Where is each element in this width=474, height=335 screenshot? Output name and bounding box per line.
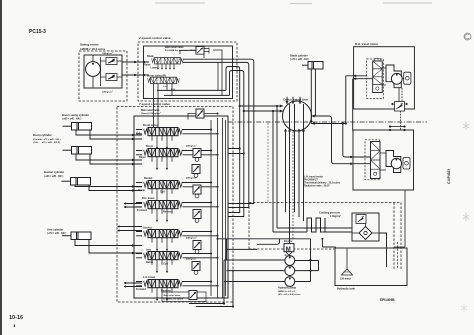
swivel west drop lines bbox=[273, 106, 277, 232]
LH brake valve spool stack bbox=[371, 142, 381, 179]
center main relief valve bbox=[189, 291, 197, 300]
spool service ports and work lines bbox=[152, 238, 172, 250]
swivel pass-through verticals bbox=[286, 104, 304, 244]
swivel right out upper to LH motor bbox=[312, 116, 354, 164]
fold mark bottom right bbox=[461, 304, 467, 312]
svg-text:(4.5 + 4.5 + 4.4) cc/rev: (4.5 + 4.5 + 4.4) cc/rev bbox=[278, 293, 301, 296]
spool boom swing L bbox=[144, 128, 183, 136]
swivel top stubs bbox=[287, 97, 300, 104]
LH motor drain bbox=[394, 190, 405, 247]
svg-text:SBR0.9 + 0.9 + 6: SBR0.9 + 0.9 + 6 bbox=[278, 291, 296, 293]
LH motor entry stubs bbox=[353, 157, 371, 164]
center swivel joint circle bbox=[283, 101, 312, 131]
svg-text:Boom: Boom bbox=[146, 145, 154, 148]
svg-text:Main relief valve: Main relief valve bbox=[141, 109, 160, 112]
internal rails bbox=[211, 118, 226, 298]
pump suction lines right bbox=[295, 261, 319, 282]
boom swing spool down ports into 7-spool valve bbox=[154, 84, 173, 128]
copyright mark bbox=[464, 33, 471, 40]
junction dots swing wires bbox=[134, 61, 136, 63]
wire swing motor to 2-speed valve A bbox=[122, 61, 149, 63]
port relief valve bbox=[192, 165, 200, 174]
RH to LH dashed link bbox=[400, 111, 402, 130]
svg-text:Forward: Forward bbox=[137, 209, 147, 212]
center main relief label box bbox=[162, 292, 206, 302]
svg-text:(Travel) 210 kg/cm²: (Travel) 210 kg/cm² bbox=[141, 112, 161, 115]
LH motor circle bbox=[391, 158, 401, 168]
svg-text:Boom swing: Boom swing bbox=[143, 124, 158, 127]
swivel axis dash-dot line bbox=[228, 121, 427, 123]
svg-text:2-speed control valve: 2-speed control valve bbox=[139, 36, 171, 40]
engine coupling bbox=[286, 252, 292, 255]
svg-text:Dump: Dump bbox=[146, 261, 154, 264]
svg-text:1.0kg/cm²: 1.0kg/cm² bbox=[330, 214, 341, 218]
swing relief valve lower bbox=[106, 74, 117, 81]
svg-text:240kg/cm²: 240kg/cm² bbox=[186, 176, 197, 179]
main relief valve PV-20MA bbox=[196, 47, 209, 55]
check valve box bbox=[352, 213, 379, 241]
svg-text:Lower: Lower bbox=[151, 67, 158, 70]
left pin wires bucket bbox=[128, 187, 142, 191]
spool boom swing L ports and work lines bbox=[152, 136, 172, 148]
junction dots 2-speed bbox=[239, 105, 241, 107]
pump delivery lines left bbox=[224, 260, 285, 282]
RH brake valve spool stack bbox=[373, 59, 383, 93]
boom swing cylinder bbox=[63, 123, 92, 131]
return jog line bbox=[257, 239, 280, 245]
engine box bbox=[284, 244, 294, 252]
7-spool solid body bbox=[134, 116, 228, 298]
2-speed dashed enclosure bbox=[138, 42, 237, 101]
travel spool left stubs bbox=[118, 204, 143, 287]
boom swing R spool bbox=[148, 77, 180, 83]
left pin wires boom swing bbox=[128, 135, 142, 139]
RH brake valve dashed box bbox=[367, 59, 384, 99]
svg-text:Bucket: Bucket bbox=[144, 177, 153, 180]
svg-text:⍸: ⍸ bbox=[13, 322, 16, 327]
svg-text:Curl: Curl bbox=[163, 262, 168, 265]
page left border bbox=[0, 0, 2, 335]
RH parking brake bbox=[404, 72, 411, 84]
svg-text:Boom cylinder: Boom cylinder bbox=[33, 133, 52, 137]
port relief valve bbox=[193, 241, 201, 250]
svg-text:Reduction ratio : 39.57: Reduction ratio : 39.57 bbox=[304, 184, 330, 187]
left pin wires boom bbox=[128, 160, 142, 164]
spool RH travel ports and work lines bbox=[152, 209, 172, 221]
svg-text:Blade cylinder: Blade cylinder bbox=[290, 54, 308, 58]
svg-text:PC15-3: PC15-3 bbox=[29, 29, 46, 35]
boom swing cylinder wires bbox=[76, 130, 128, 139]
svg-text:C10P4023: C10P4023 bbox=[447, 169, 451, 184]
RH travel feed B bbox=[353, 79, 373, 131]
spool arm bbox=[144, 252, 183, 260]
swivel right out lower to LH motor bbox=[311, 124, 353, 158]
svg-text:R.H. travel: R.H. travel bbox=[142, 197, 155, 200]
upper branch to check box bbox=[277, 227, 352, 229]
tank internal suction pipe bbox=[346, 248, 348, 269]
spool boom bbox=[144, 149, 183, 157]
svg-text:LMF28-2 26.3 cc/rev: LMF28-2 26.3 cc/rev bbox=[80, 47, 106, 51]
faint top scan smudges bbox=[155, 2, 432, 5]
svg-text:Service: Service bbox=[143, 226, 153, 229]
svg-text:Forward: Forward bbox=[136, 288, 146, 291]
svg-text:Main relief valve: Main relief valve bbox=[164, 295, 182, 297]
return line to tank bbox=[227, 248, 258, 250]
pump 1 bbox=[285, 256, 295, 266]
LH spool to motor links bbox=[380, 153, 386, 170]
swing relief valve upper bbox=[106, 58, 117, 65]
svg-text:150-mesh: 150-mesh bbox=[340, 278, 352, 281]
spool LH travel bbox=[144, 280, 183, 288]
svg-text:Blade: Blade bbox=[147, 55, 154, 58]
spool RH travel bbox=[144, 201, 183, 209]
svg-text:(Cdn : ø75 × ø45 - 516.5): (Cdn : ø75 × ø45 - 516.5) bbox=[33, 141, 60, 144]
svg-text:240kg/cm²: 240kg/cm² bbox=[186, 145, 197, 148]
check valve diamond bbox=[359, 227, 372, 240]
swing motor solid block bbox=[84, 55, 122, 88]
svg-text:( ø70 × ø35 - 410 ): ( ø70 × ø35 - 410 ) bbox=[290, 58, 309, 61]
spool LH travel ports and work lines bbox=[152, 288, 172, 300]
bypass valve in box bbox=[356, 215, 366, 224]
svg-text:240kg/cm²: 240kg/cm² bbox=[186, 258, 197, 261]
drain dashed into tank bbox=[393, 203, 395, 271]
swing motor circle bbox=[86, 62, 101, 77]
RH travel feed A bbox=[346, 76, 367, 124]
port relief valve bbox=[193, 210, 201, 219]
svg-text:Curl: Curl bbox=[160, 190, 165, 193]
svg-text:Main relief valve: Main relief valve bbox=[165, 46, 184, 49]
travel main relief valve bbox=[196, 109, 204, 118]
drain dashed short bbox=[397, 242, 399, 268]
cooler outlet bbox=[325, 218, 352, 232]
oil cooler bbox=[307, 218, 325, 232]
svg-text:( ø60 × ø35 - 460 ): ( ø60 × ø35 - 460 ) bbox=[44, 175, 63, 178]
svg-text:100kg/cm²: 100kg/cm² bbox=[102, 52, 113, 55]
hydraulic tank box bbox=[335, 248, 407, 286]
lower dashed box top bbox=[249, 202, 401, 204]
svg-text:Swing motor: Swing motor bbox=[80, 43, 100, 47]
trunk connector stubs bbox=[228, 149, 244, 154]
arm cylinder bbox=[62, 232, 91, 240]
svg-text:L.H. travel: L.H. travel bbox=[143, 276, 155, 279]
svg-text:10-16: 10-16 bbox=[9, 315, 23, 321]
blade cylinder bbox=[302, 62, 323, 70]
svg-text:Boom swing cylinder: Boom swing cylinder bbox=[62, 113, 89, 117]
port relief valve bbox=[193, 185, 201, 194]
svg-text:Engine: Engine bbox=[284, 240, 293, 243]
7-spool dashed enclosure bbox=[117, 107, 233, 303]
riser right of pumps bbox=[311, 239, 336, 282]
swing motor internal wires bbox=[93, 55, 122, 88]
blade work port lines right bbox=[183, 59, 254, 207]
boom cylinder bbox=[63, 147, 92, 155]
spool boom ports and work lines bbox=[152, 157, 172, 169]
lower dashed box left bbox=[248, 203, 250, 250]
svg-text:( ø70 × ø40 - 490 ): ( ø70 × ø40 - 490 ) bbox=[47, 232, 66, 235]
svg-text:240kg/cm²: 240kg/cm² bbox=[186, 237, 197, 240]
svg-text:Arm cylinder: Arm cylinder bbox=[47, 228, 63, 232]
2-speed solid body bbox=[144, 46, 233, 99]
svg-text:Hydraulic tank: Hydraulic tank bbox=[337, 286, 355, 290]
LH brake valve dashed box bbox=[365, 140, 380, 180]
corner risers to long runs bbox=[226, 67, 244, 217]
bottom feed lines bbox=[189, 304, 233, 307]
faint dashed vertical left bbox=[267, 123, 269, 202]
spool service bbox=[144, 230, 183, 238]
blade spool bbox=[152, 58, 184, 64]
svg-text:Arm: Arm bbox=[146, 248, 152, 251]
wire swing motor to 2-speed valve B bbox=[122, 74, 149, 76]
spool bucket ports and work lines bbox=[152, 189, 172, 201]
fold mark right upper bbox=[463, 122, 469, 130]
swivel arrow marks lower bbox=[284, 119, 313, 132]
bucket cylinder bbox=[62, 178, 91, 186]
return line to cooler bbox=[273, 231, 307, 233]
svg-text:M: M bbox=[286, 247, 291, 253]
swivel left feed upper bbox=[240, 105, 283, 107]
pump 3 bbox=[285, 277, 295, 287]
svg-text:Hydraulic pump: Hydraulic pump bbox=[278, 287, 297, 290]
svg-text:EPI1409B: EPI1409B bbox=[380, 298, 395, 302]
svg-text:100kg/cm²: 100kg/cm² bbox=[102, 91, 113, 94]
svg-text:R.H. travel motor: R.H. travel motor bbox=[355, 42, 379, 46]
RH spool to motor links bbox=[382, 68, 386, 85]
pump shaft bbox=[289, 255, 291, 267]
RH motor circle bbox=[391, 73, 402, 84]
boom cylinder wires bbox=[76, 154, 128, 164]
port relief valve bbox=[192, 262, 200, 271]
wire relief to spool bbox=[180, 50, 222, 95]
RH travel motor box bbox=[354, 47, 415, 109]
swing motor dashed enclosure bbox=[79, 51, 127, 101]
svg-text:(Center) 210 kg/cm²: (Center) 210 kg/cm² bbox=[164, 297, 185, 300]
2-speed bottom internal lines bbox=[157, 90, 230, 95]
left pin arrows bbox=[132, 134, 135, 255]
svg-text:(Canada : ø75 × ø45 - 530 ): (Canada : ø75 × ø45 - 530 ) bbox=[33, 138, 61, 141]
spool bucket bbox=[144, 181, 183, 189]
pump feed lines to valve bbox=[218, 238, 311, 240]
blade spool ports bbox=[158, 64, 174, 69]
check box outlet to tank bbox=[379, 233, 387, 267]
svg-text:Bucket cylinder: Bucket cylinder bbox=[44, 170, 64, 174]
blade cylinder drop lines bbox=[311, 69, 315, 124]
spool arm ports and work lines bbox=[152, 260, 172, 272]
bottom risers bbox=[224, 260, 233, 307]
strainer 150-mesh bbox=[342, 269, 353, 275]
suction header vertical bbox=[226, 239, 228, 260]
LH motor housing bbox=[386, 151, 401, 173]
port relief valve bbox=[193, 149, 201, 158]
pump 2 bbox=[285, 266, 295, 276]
LH travel motor box bbox=[353, 130, 414, 190]
arm cylinder wires bbox=[75, 240, 128, 254]
svg-text:( ø80 × ø40 - 490 ): ( ø80 × ø40 - 490 ) bbox=[62, 118, 81, 121]
swivel left feed lower bbox=[244, 110, 283, 112]
svg-text:7-spool control valve: 7-spool control valve bbox=[139, 102, 170, 106]
left pin wires arm bbox=[128, 246, 142, 254]
lower dashed box bottom bbox=[249, 248, 335, 250]
dashed swing drain vertical bbox=[292, 132, 294, 241]
bucket cylinder wires bbox=[75, 185, 128, 191]
LH parking brake bbox=[403, 158, 410, 170]
fold mark right lower bbox=[463, 213, 469, 221]
RH motor housing bbox=[386, 65, 401, 88]
lower dashed box right drain bbox=[400, 203, 402, 271]
RH counterbalance valve bbox=[395, 102, 405, 112]
RH motor drain bbox=[398, 88, 400, 102]
